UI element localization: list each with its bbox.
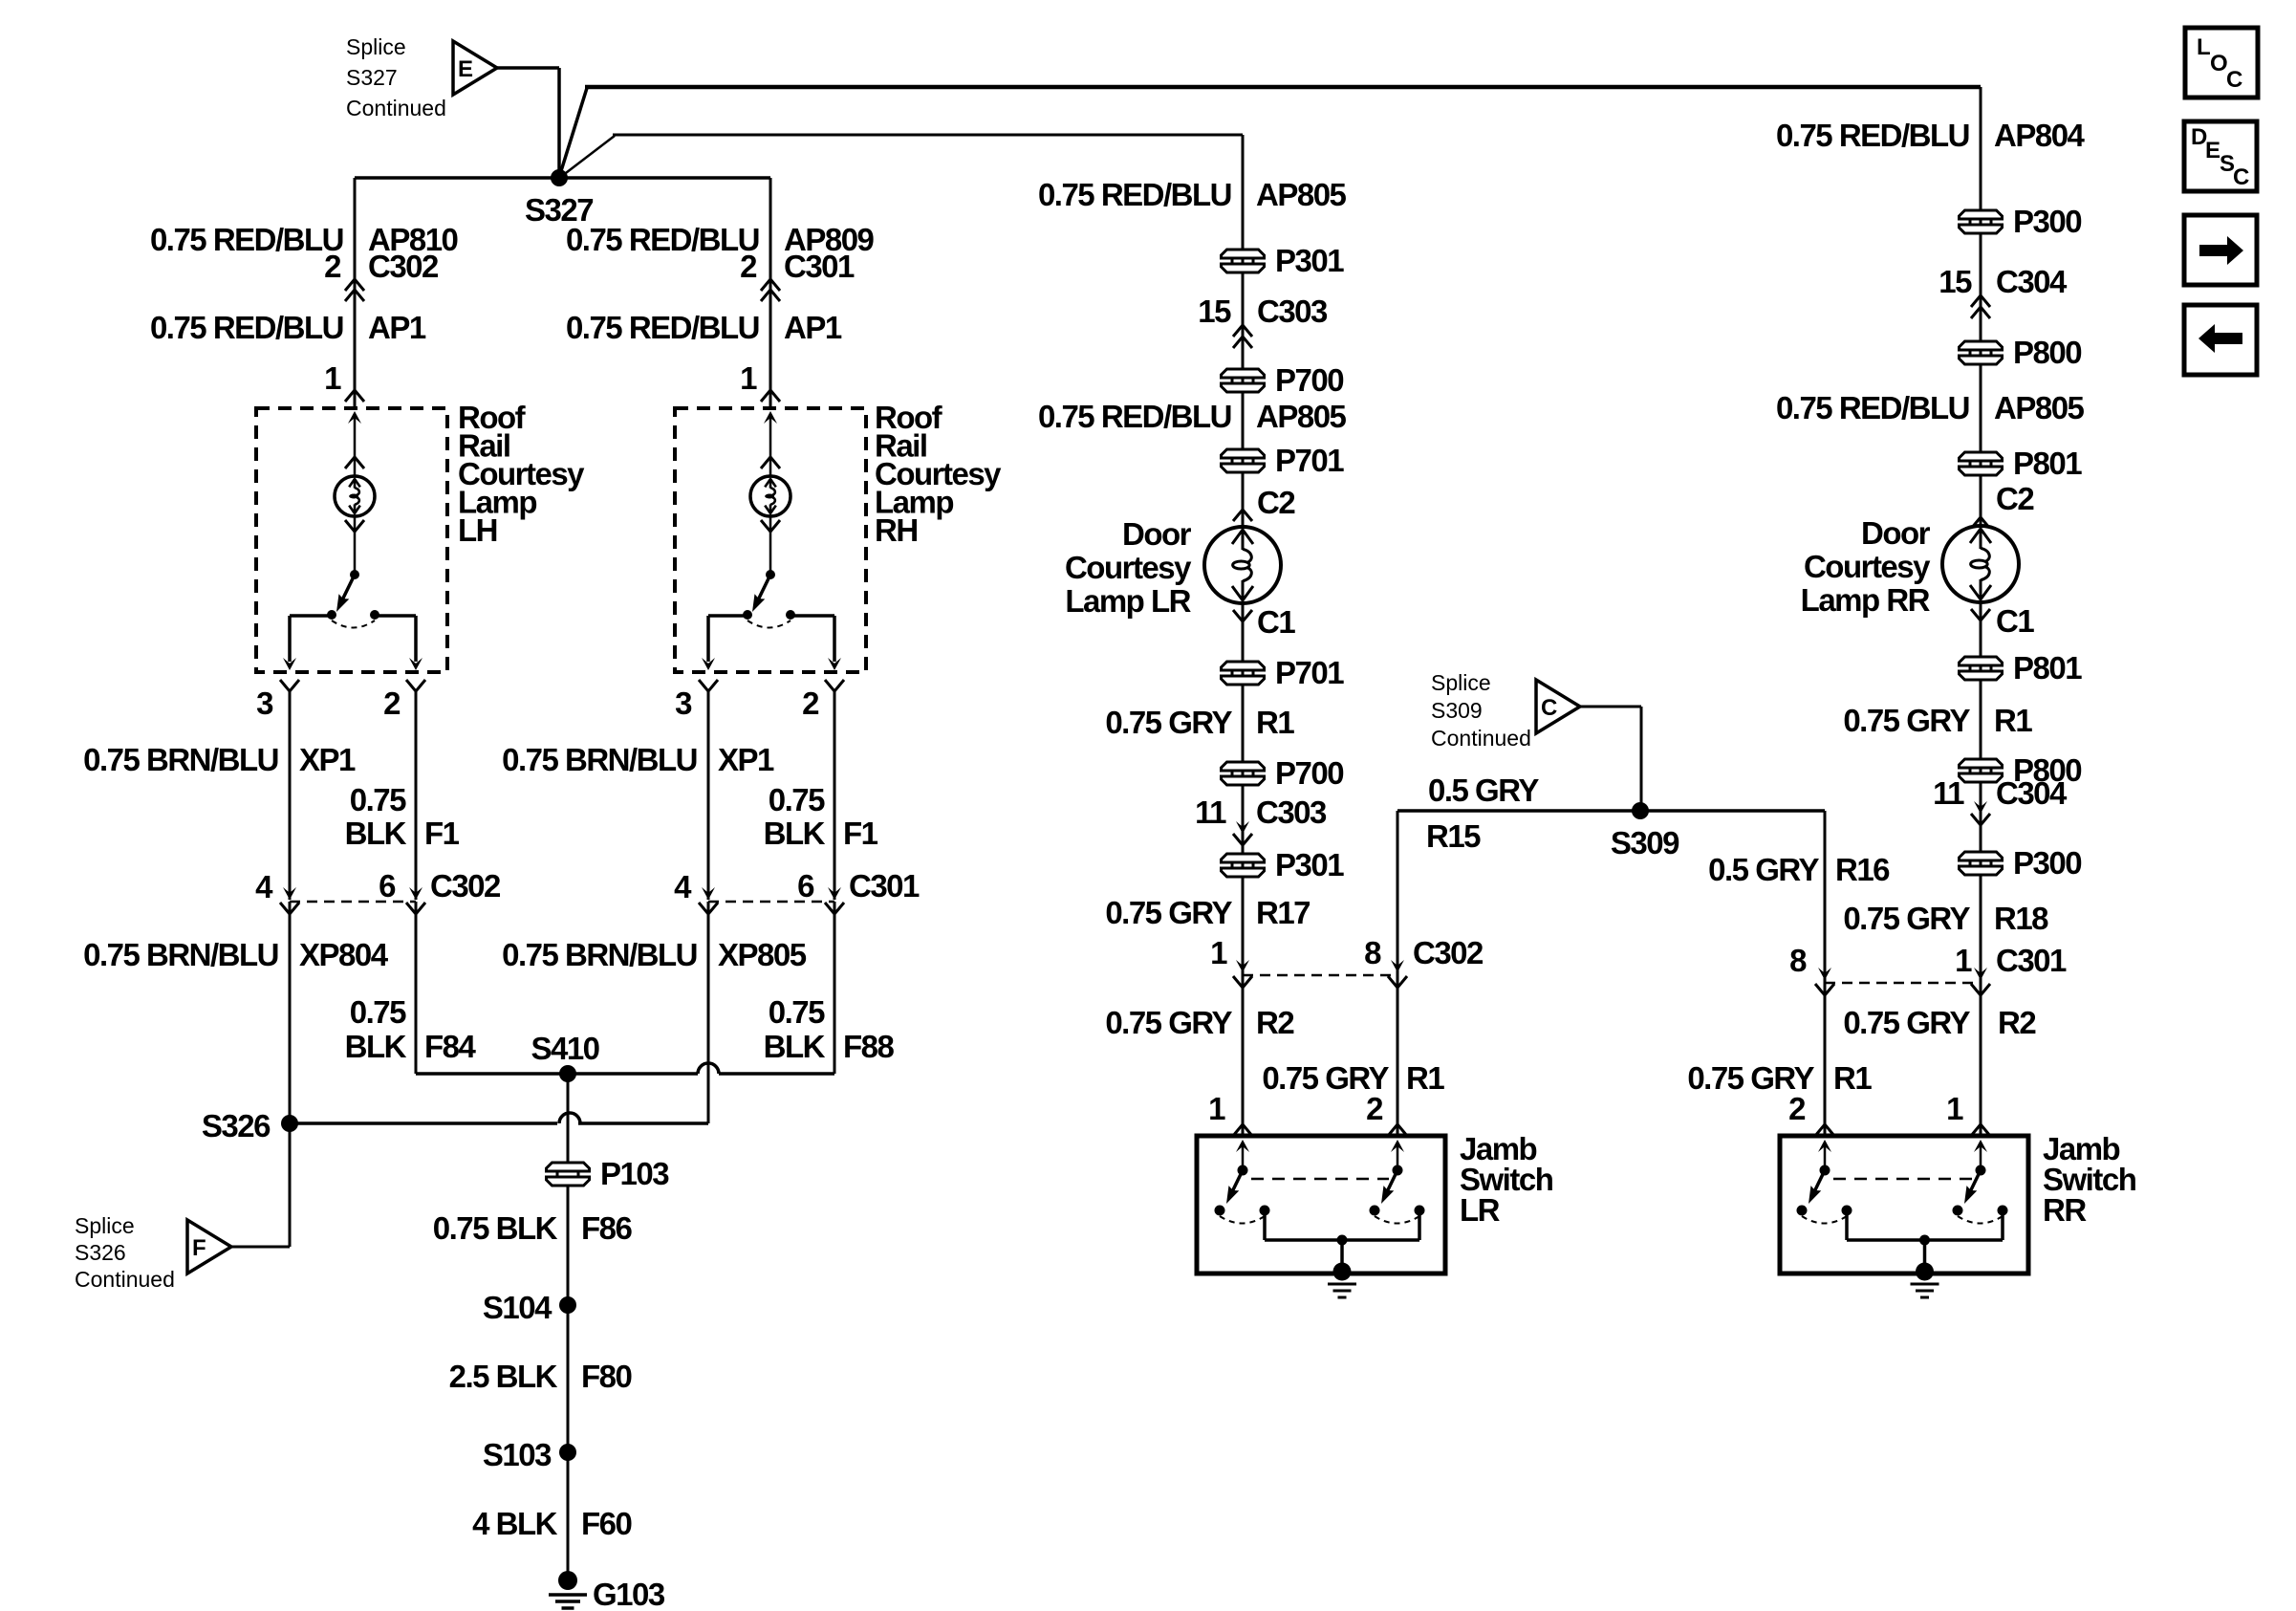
svg-text:6: 6 xyxy=(379,868,396,903)
svg-text:S327: S327 xyxy=(346,65,398,90)
svg-text:0.75 RED/BLU: 0.75 RED/BLU xyxy=(1776,390,1969,425)
svg-text:P301: P301 xyxy=(1275,243,1344,278)
svg-text:P700: P700 xyxy=(1275,755,1343,791)
svg-text:C302: C302 xyxy=(368,249,439,284)
svg-text:1: 1 xyxy=(324,360,341,396)
svg-text:8: 8 xyxy=(1364,935,1381,970)
svg-text:Continued: Continued xyxy=(1431,726,1531,751)
svg-text:C: C xyxy=(1541,695,1557,721)
svg-text:0.5 GRY: 0.5 GRY xyxy=(1708,852,1819,887)
svg-text:2: 2 xyxy=(383,686,401,721)
svg-text:G103: G103 xyxy=(593,1577,665,1611)
svg-text:C301: C301 xyxy=(784,249,855,284)
svg-text:R1: R1 xyxy=(1256,705,1294,740)
svg-text:0.75 BRN/BLU: 0.75 BRN/BLU xyxy=(502,937,697,972)
svg-text:2: 2 xyxy=(324,249,341,284)
svg-text:F84: F84 xyxy=(424,1029,477,1064)
svg-text:R17: R17 xyxy=(1256,895,1310,930)
svg-text:R15: R15 xyxy=(1426,818,1481,854)
svg-text:P701: P701 xyxy=(1275,443,1344,478)
svg-text:BLK: BLK xyxy=(345,1029,407,1064)
svg-text:0.75: 0.75 xyxy=(769,994,825,1030)
svg-text:4 BLK: 4 BLK xyxy=(472,1506,558,1541)
svg-text:AP1: AP1 xyxy=(368,310,426,345)
svg-text:Courtesy: Courtesy xyxy=(1804,549,1931,584)
svg-text:0.75 RED/BLU: 0.75 RED/BLU xyxy=(150,222,343,257)
svg-text:C: C xyxy=(2233,164,2249,190)
svg-text:0.75: 0.75 xyxy=(350,782,406,817)
svg-text:C303: C303 xyxy=(1256,795,1327,830)
svg-text:0.75 RED/BLU: 0.75 RED/BLU xyxy=(1038,177,1231,212)
svg-text:P301: P301 xyxy=(1275,847,1344,882)
svg-text:E: E xyxy=(2205,138,2220,163)
svg-text:BLK: BLK xyxy=(345,816,407,851)
svg-text:0.75 RED/BLU: 0.75 RED/BLU xyxy=(1776,118,1969,153)
svg-text:1: 1 xyxy=(1946,1091,1963,1126)
svg-text:0.75 BLK: 0.75 BLK xyxy=(433,1210,558,1246)
svg-text:XP804: XP804 xyxy=(299,937,389,972)
svg-text:P300: P300 xyxy=(2013,845,2081,881)
svg-text:15: 15 xyxy=(1198,294,1231,329)
svg-text:C304: C304 xyxy=(1996,775,2068,811)
svg-text:AP805: AP805 xyxy=(1256,399,1347,434)
svg-text:Splice: Splice xyxy=(1431,670,1491,695)
svg-text:C: C xyxy=(2226,67,2242,93)
svg-text:F: F xyxy=(192,1235,206,1261)
svg-text:R1: R1 xyxy=(1833,1060,1872,1096)
svg-text:1: 1 xyxy=(1208,1091,1225,1126)
svg-text:0.75 GRY: 0.75 GRY xyxy=(1105,705,1232,740)
svg-text:3: 3 xyxy=(256,686,273,721)
svg-text:S104: S104 xyxy=(483,1290,552,1325)
svg-text:8: 8 xyxy=(1789,943,1807,978)
svg-text:0.75 GRY: 0.75 GRY xyxy=(1843,703,1970,738)
svg-text:O: O xyxy=(2210,51,2228,76)
svg-text:R2: R2 xyxy=(1998,1005,2036,1040)
svg-text:XP1: XP1 xyxy=(299,742,356,777)
svg-text:0.75 RED/BLU: 0.75 RED/BLU xyxy=(150,310,343,345)
svg-text:C301: C301 xyxy=(849,868,920,903)
svg-text:0.75: 0.75 xyxy=(769,782,825,817)
svg-text:0.75 BRN/BLU: 0.75 BRN/BLU xyxy=(83,937,278,972)
svg-text:0.75 BRN/BLU: 0.75 BRN/BLU xyxy=(502,742,697,777)
svg-text:0.75 RED/BLU: 0.75 RED/BLU xyxy=(1038,399,1231,434)
svg-text:C2: C2 xyxy=(1257,485,1295,520)
svg-text:S103: S103 xyxy=(483,1437,552,1472)
svg-text:P801: P801 xyxy=(2013,446,2082,481)
svg-text:0.75 RED/BLU: 0.75 RED/BLU xyxy=(566,310,759,345)
svg-text:1: 1 xyxy=(1210,935,1227,970)
svg-text:BLK: BLK xyxy=(764,816,826,851)
svg-text:Continued: Continued xyxy=(75,1267,175,1292)
svg-text:R18: R18 xyxy=(1994,901,2048,936)
svg-text:BLK: BLK xyxy=(764,1029,826,1064)
svg-text:AP805: AP805 xyxy=(1994,390,2085,425)
svg-text:Door: Door xyxy=(1122,516,1192,552)
svg-text:R1: R1 xyxy=(1406,1060,1444,1096)
svg-text:S309: S309 xyxy=(1611,825,1679,860)
svg-text:0.75 GRY: 0.75 GRY xyxy=(1105,1005,1232,1040)
svg-text:0.75 GRY: 0.75 GRY xyxy=(1843,1005,1970,1040)
svg-text:F80: F80 xyxy=(581,1359,632,1394)
svg-text:C301: C301 xyxy=(1996,943,2067,978)
svg-text:P701: P701 xyxy=(1275,655,1344,690)
svg-text:Door: Door xyxy=(1861,515,1931,551)
svg-text:C303: C303 xyxy=(1257,294,1328,329)
svg-text:2: 2 xyxy=(802,686,819,721)
svg-text:E: E xyxy=(458,56,473,82)
svg-text:C1: C1 xyxy=(1996,603,2034,639)
svg-text:1: 1 xyxy=(740,360,757,396)
svg-text:LR: LR xyxy=(1460,1192,1501,1228)
svg-text:C1: C1 xyxy=(1257,604,1295,640)
svg-text:0.75 GRY: 0.75 GRY xyxy=(1843,901,1970,936)
svg-text:Lamp LR: Lamp LR xyxy=(1065,583,1191,619)
svg-text:C304: C304 xyxy=(1996,264,2068,299)
svg-text:LH: LH xyxy=(458,512,497,548)
svg-text:L: L xyxy=(2197,34,2211,60)
svg-text:3: 3 xyxy=(675,686,692,721)
svg-text:Continued: Continued xyxy=(346,96,446,120)
svg-text:0.75 GRY: 0.75 GRY xyxy=(1105,895,1232,930)
svg-text:2: 2 xyxy=(740,249,757,284)
svg-text:R1: R1 xyxy=(1994,703,2032,738)
svg-text:4: 4 xyxy=(674,869,692,904)
svg-text:R16: R16 xyxy=(1835,852,1890,887)
svg-text:15: 15 xyxy=(1939,264,1972,299)
svg-text:0.75: 0.75 xyxy=(350,994,406,1030)
svg-text:2: 2 xyxy=(1788,1091,1806,1126)
svg-text:S309: S309 xyxy=(1431,698,1483,723)
svg-text:2: 2 xyxy=(1366,1091,1383,1126)
svg-text:F1: F1 xyxy=(843,816,878,851)
svg-text:AP804: AP804 xyxy=(1994,118,2086,153)
svg-text:Splice: Splice xyxy=(346,34,406,59)
svg-text:11: 11 xyxy=(1195,795,1226,830)
svg-text:P801: P801 xyxy=(2013,650,2082,686)
svg-text:4: 4 xyxy=(255,869,273,904)
svg-text:S326: S326 xyxy=(75,1240,126,1265)
svg-text:F88: F88 xyxy=(843,1029,895,1064)
svg-text:P103: P103 xyxy=(600,1156,669,1191)
svg-text:F1: F1 xyxy=(424,816,460,851)
svg-text:Splice: Splice xyxy=(75,1213,135,1238)
svg-text:XP805: XP805 xyxy=(718,937,807,972)
svg-text:RH: RH xyxy=(875,512,918,548)
svg-text:P800: P800 xyxy=(2013,335,2081,370)
svg-text:0.75 BRN/BLU: 0.75 BRN/BLU xyxy=(83,742,278,777)
svg-text:0.75 RED/BLU: 0.75 RED/BLU xyxy=(566,222,759,257)
svg-text:S326: S326 xyxy=(202,1108,271,1143)
svg-text:S410: S410 xyxy=(531,1031,598,1066)
svg-text:F86: F86 xyxy=(581,1210,633,1246)
svg-text:P300: P300 xyxy=(2013,204,2081,239)
svg-text:C302: C302 xyxy=(430,868,501,903)
svg-text:C2: C2 xyxy=(1996,481,2034,516)
svg-text:AP1: AP1 xyxy=(784,310,842,345)
svg-text:RR: RR xyxy=(2043,1192,2087,1228)
svg-text:XP1: XP1 xyxy=(718,742,774,777)
svg-text:1: 1 xyxy=(1955,943,1972,978)
svg-text:AP805: AP805 xyxy=(1256,177,1347,212)
svg-text:Courtesy: Courtesy xyxy=(1065,550,1192,585)
svg-text:0.5 GRY: 0.5 GRY xyxy=(1428,773,1539,808)
svg-text:F60: F60 xyxy=(581,1506,632,1541)
svg-text:C302: C302 xyxy=(1413,935,1484,970)
svg-text:Lamp RR: Lamp RR xyxy=(1801,582,1931,618)
svg-text:P700: P700 xyxy=(1275,362,1343,398)
svg-text:R2: R2 xyxy=(1256,1005,1294,1040)
svg-text:2.5 BLK: 2.5 BLK xyxy=(449,1359,558,1394)
svg-text:6: 6 xyxy=(797,868,814,903)
svg-text:11: 11 xyxy=(1933,775,1964,811)
